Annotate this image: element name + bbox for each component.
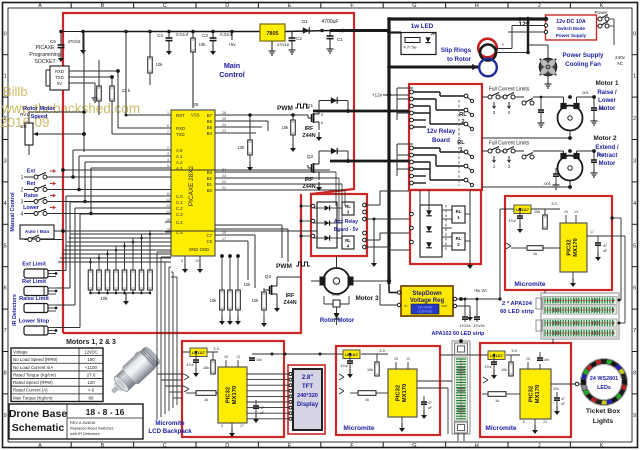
wire motor2 feed	[533, 150, 564, 152]
svg-text:C: C	[163, 3, 167, 9]
svg-text:uF: uF	[561, 402, 565, 406]
svg-text:Max Torque (Kg/cm): Max Torque (Kg/cm)	[13, 395, 53, 400]
svg-text:47: 47	[603, 244, 607, 248]
svg-text:470/16: 470/16	[68, 39, 81, 44]
wire +5 rail to micromite right	[499, 209, 501, 299]
svg-text:470/16: 470/16	[277, 42, 290, 47]
svg-text:5: 5	[4, 243, 7, 249]
svg-text:28: 28	[194, 102, 199, 107]
svg-text:28: 28	[526, 357, 530, 361]
svg-text:> 6: > 6	[88, 388, 95, 393]
svg-text:.001: .001	[581, 90, 590, 95]
svg-text:19: 19	[222, 231, 226, 235]
svg-text:5: 5	[633, 243, 636, 249]
svg-text:10k: 10k	[282, 125, 290, 130]
wire B7 to Q1 gate	[215, 114, 308, 116]
svg-text:20n: 20n	[553, 387, 559, 391]
red outline power supply	[546, 15, 597, 40]
svg-text:1: 1	[633, 74, 636, 80]
svg-text:+: +	[502, 42, 505, 47]
svg-text:22: 22	[543, 420, 547, 424]
svg-text:to Rotor: to Rotor	[447, 56, 472, 63]
svg-text:Rated Speed (RPM): Rated Speed (RPM)	[13, 380, 53, 385]
svg-text:Power Supply: Power Supply	[556, 33, 587, 38]
svg-text:22 k: 22 k	[122, 88, 131, 93]
svg-text:in: in	[405, 304, 408, 308]
svg-text:6: 6	[633, 286, 636, 292]
input forks micromite right	[506, 243, 511, 249]
svg-text:J: J	[538, 443, 541, 449]
svg-text:2: 2	[508, 164, 511, 169]
svg-text:B0: B0	[207, 188, 213, 193]
slip ring black	[480, 45, 496, 61]
svg-text:.001: .001	[543, 181, 552, 186]
svg-text:3.3: 3.3	[379, 348, 385, 353]
wire across lower area	[62, 332, 64, 334]
capacitor motor1 .001	[591, 107, 597, 109]
svg-text:Voltage: Voltage	[13, 350, 28, 355]
svg-text:PWM: PWM	[277, 105, 293, 112]
wire 7805 output rail	[285, 31, 330, 32]
regulator LM1117 bottom-right	[488, 351, 505, 360]
svg-text:4: 4	[4, 201, 7, 207]
wire thick into 1w LED box	[389, 31, 401, 33]
svg-text:TXD: TXD	[176, 132, 185, 137]
red outline aux relay board 5v	[311, 194, 367, 256]
slip ring red	[478, 39, 497, 58]
input forks bc	[339, 374, 344, 380]
svg-text:K: K	[600, 3, 604, 9]
svg-text:10k: 10k	[534, 210, 540, 214]
svg-text:K: K	[600, 443, 604, 449]
wire mesh sensors to picaxe	[55, 270, 57, 272]
svg-text:Ext: Ext	[27, 169, 36, 175]
svg-text:27: 27	[240, 424, 244, 428]
svg-text:8: 8	[4, 371, 7, 377]
svg-text:10k: 10k	[501, 368, 507, 372]
capacitor 47uf bc	[347, 360, 353, 362]
svg-text:1: 1	[493, 164, 496, 169]
relay RL4	[342, 236, 354, 249]
ground under rail drop	[82, 45, 84, 50]
svg-text:A: A	[38, 3, 42, 9]
wire aux left feed stubs	[301, 205, 311, 207]
resistor 10k micromite right	[543, 215, 548, 229]
svg-text:B6: B6	[207, 119, 213, 124]
svg-text:47uf: 47uf	[187, 363, 194, 367]
svg-text:2.8": 2.8"	[302, 375, 313, 381]
svg-text:100: 100	[87, 357, 95, 362]
capacitor motor2 .001	[591, 159, 597, 161]
svg-text:PICAXE 28X2: PICAXE 28X2	[188, 165, 195, 206]
capacitor 47uf micromite right	[517, 215, 523, 217]
svg-text:Lower: Lower	[598, 98, 616, 104]
wire micromite right internals	[505, 208, 514, 210]
svg-text:1k: 1k	[495, 399, 499, 403]
svg-text:470/16: 470/16	[474, 324, 485, 328]
slip ring blue	[479, 59, 497, 77]
svg-text:MX170: MX170	[232, 386, 238, 404]
diode flyback Q1	[331, 97, 337, 103]
svg-text:0.01uf: 0.01uf	[220, 32, 232, 37]
svg-text:C5: C5	[50, 39, 56, 44]
relay contacts RL2 right	[464, 94, 468, 98]
svg-text:RST: RST	[176, 113, 185, 118]
LED strip APA104 assembly	[541, 293, 619, 339]
capacitor 10n br	[537, 357, 543, 359]
svg-text:B3: B3	[207, 170, 213, 175]
wire relay contact loops upper	[396, 88, 398, 120]
resistor R13 10k below chip	[220, 290, 225, 310]
junction dots	[387, 31, 391, 35]
svg-text:11: 11	[166, 192, 170, 196]
svg-text:0: 0	[4, 31, 7, 37]
LED strip APA102 bottom connector	[455, 422, 468, 433]
node +5v stub	[231, 32, 233, 41]
svg-text:Auto / Man: Auto / Man	[25, 229, 50, 235]
ground resistor bank	[125, 293, 127, 296]
red outline aux diode board	[410, 190, 481, 264]
svg-text:Schematic: Schematic	[12, 422, 65, 434]
resistor bank R1-R8 10k pullups	[88, 270, 93, 290]
red outline micromite LCD backpack	[182, 341, 284, 437]
wire thick rail to C1 bus	[330, 29, 390, 32]
regulator LM1117 right	[514, 205, 531, 214]
ground PICAXE pin19	[199, 256, 201, 264]
svg-text:D: D	[225, 3, 229, 9]
capacitor motor1 lower	[538, 109, 544, 111]
svg-text:10k: 10k	[100, 296, 108, 301]
svg-text:23: 23	[222, 129, 226, 133]
svg-text:Rated Current (A): Rated Current (A)	[13, 388, 48, 393]
svg-text:PICAXE: PICAXE	[35, 45, 55, 51]
svg-text:A: A	[38, 443, 42, 449]
svg-text:1k: 1k	[204, 398, 208, 402]
diode array aux board 2	[420, 205, 442, 257]
capacitor 47uf backpack	[193, 359, 199, 361]
wire +12v feed to relay	[383, 94, 409, 96]
wire motor2 return	[569, 181, 571, 188]
svg-text:9: 9	[4, 413, 7, 419]
diode flyback Q2	[331, 148, 337, 154]
svg-text:47uf: 47uf	[341, 364, 348, 368]
wire aux ground drop	[373, 219, 375, 258]
capacitor C2	[289, 37, 296, 39]
svg-text:PIC32: PIC32	[226, 387, 232, 403]
svg-text:120: 120	[87, 380, 95, 385]
LED diode	[425, 37, 430, 42]
svg-text:8: 8	[523, 420, 525, 424]
wire relay internal wiring lower	[413, 147, 440, 149]
svg-text:3: 3	[633, 159, 636, 165]
resistor 10k pullup	[191, 38, 196, 52]
svg-text:RXD: RXD	[55, 69, 64, 74]
svg-text:C6: C6	[207, 239, 213, 244]
wire resistor bank bottom rail	[91, 292, 151, 294]
wire gate feeds Q1 Q2	[300, 114, 308, 116]
wire motor3 top to aux board	[336, 256, 338, 268]
wire 12v thick bus vertical	[387, 19, 390, 284]
svg-text:RL: RL	[456, 209, 462, 214]
resistor 4.7r 5w	[405, 38, 420, 43]
regulator U2 7805	[260, 24, 285, 41]
svg-text:Speed: Speed	[31, 114, 48, 120]
svg-text:12v: 12v	[518, 21, 530, 28]
wire auto-man to bus	[63, 230, 340, 232]
svg-text:12v Relay: 12v Relay	[427, 128, 456, 135]
wire thick slip-ring feed	[389, 66, 478, 69]
svg-text:13: 13	[236, 355, 240, 359]
svg-text:8: 8	[181, 259, 183, 263]
svg-text:TXD: TXD	[55, 75, 64, 80]
svg-text:Billb: Billb	[3, 84, 28, 99]
ground socket	[94, 95, 96, 98]
svg-text:AC: AC	[617, 61, 624, 66]
svg-text:Control: Control	[219, 70, 245, 79]
wire strips right loop	[619, 299, 621, 301]
svg-text:Main: Main	[224, 61, 240, 70]
svg-text:RL: RL	[456, 236, 462, 241]
svg-text:MX170: MX170	[535, 385, 541, 403]
wire rail bc to bottom-right	[440, 354, 480, 356]
svg-text:+5v: +5v	[228, 42, 236, 47]
svg-text:Motor 1: Motor 1	[595, 80, 619, 87]
svg-text:with IR Detectors: with IR Detectors	[70, 431, 100, 436]
svg-text:StepDown: StepDown	[412, 291, 442, 297]
regulator LM1117 bottom-center	[343, 350, 360, 359]
svg-text:H: H	[475, 3, 479, 9]
spec table	[11, 348, 103, 402]
input forks backpack	[184, 374, 189, 380]
svg-text:MX170: MX170	[573, 238, 579, 256]
LED strip connectors left	[536, 298, 542, 309]
relay contacts upper group RL2	[410, 90, 414, 94]
svg-text:1k: 1k	[365, 398, 369, 402]
ground chip right box	[572, 272, 574, 278]
svg-text:1w LED: 1w LED	[411, 23, 434, 30]
ground br chip	[534, 419, 536, 425]
LED strip APA102 vertical	[452, 341, 470, 434]
svg-text:17: 17	[590, 230, 594, 234]
svg-text:G: G	[412, 443, 416, 449]
red outline micromite bottom-center	[336, 346, 440, 435]
capacitor C3	[210, 37, 217, 39]
svg-text:10k: 10k	[203, 366, 209, 370]
svg-text:7: 7	[633, 328, 636, 334]
ground bc chip	[401, 417, 403, 423]
svg-text:H: H	[475, 443, 479, 449]
svg-text:3.3: 3.3	[213, 346, 219, 351]
svg-text:S: S	[321, 113, 324, 117]
svg-text:REV A 26/8/16: REV A 26/8/16	[70, 420, 95, 425]
svg-text:3: 3	[493, 110, 496, 115]
resistor R16 10k	[248, 140, 253, 155]
svg-text:47: 47	[428, 401, 432, 405]
svg-text:12v DC 10A: 12v DC 10A	[556, 19, 586, 25]
resistor 1k micromite right	[527, 246, 543, 251]
svg-text:B1: B1	[207, 182, 213, 187]
svg-text:13: 13	[406, 357, 410, 361]
svg-text:23: 23	[222, 174, 226, 178]
svg-text:C.3: C.3	[176, 212, 183, 217]
svg-text:J: J	[538, 3, 541, 9]
wire socket TXD	[69, 76, 112, 78]
red outline TFT display	[288, 365, 325, 434]
capacitor motor2 lower	[553, 173, 559, 175]
svg-text:10k: 10k	[210, 298, 218, 303]
svg-text:Lights: Lights	[593, 418, 614, 425]
svg-text:PIC32: PIC32	[567, 239, 573, 255]
svg-text:13: 13	[166, 204, 170, 208]
wire relay to aux2 links	[419, 190, 421, 205]
svg-text:Drone Base: Drone Base	[9, 408, 68, 420]
wire micromite right outputs to strips	[612, 217, 621, 219]
svg-text:RXD: RXD	[176, 126, 185, 131]
wire stepdown in	[388, 284, 390, 293]
capacitor C5	[58, 44, 65, 46]
svg-text:LM1117: LM1117	[345, 353, 358, 357]
capacitor 47uf br	[491, 361, 497, 363]
resistor 1k br	[488, 392, 506, 397]
node top +V rail	[83, 31, 260, 33]
svg-text:8: 8	[633, 371, 636, 377]
wire aux2 internals	[442, 209, 452, 211]
aux board input contacts left	[311, 204, 315, 208]
ground backpack chip	[231, 423, 233, 428]
svg-text:RL: RL	[459, 112, 467, 118]
svg-text:47uf: 47uf	[485, 365, 492, 369]
wire picaxe area to bottom-center box	[310, 337, 336, 339]
connector programming socket	[50, 66, 69, 90]
svg-text:1: 1	[167, 111, 169, 115]
svg-text:Aux Relay: Aux Relay	[334, 219, 358, 225]
svg-text:Ret: Ret	[27, 181, 36, 187]
svg-text:Voltage Reg: Voltage Reg	[410, 298, 445, 304]
wire left bus vertical x84	[83, 32, 85, 153]
svg-text:60 LED strip: 60 LED strip	[500, 309, 534, 315]
wire bc internals	[336, 353, 343, 355]
wire rail backpack to bottom-center	[252, 353, 343, 355]
svg-text:C.0: C.0	[176, 194, 183, 199]
svg-text:Power Supply: Power Supply	[563, 52, 604, 59]
motor photograph	[104, 344, 163, 401]
ground aux2	[469, 258, 471, 260]
svg-text:B4: B4	[207, 131, 213, 136]
svg-text:10k: 10k	[252, 298, 260, 303]
svg-text:IRF: IRF	[305, 126, 314, 132]
svg-text:Full Current Limits: Full Current Limits	[489, 87, 530, 93]
svg-text:C2: C2	[296, 36, 302, 41]
svg-text:Switch Mode: Switch Mode	[557, 26, 586, 31]
aux relay contacts right edge	[363, 203, 367, 207]
svg-text:PIC32: PIC32	[529, 386, 535, 402]
svg-text:LED/Volts: LED/Volts	[418, 310, 433, 314]
relay RL2 aux2	[452, 233, 465, 250]
svg-text:13: 13	[574, 210, 578, 214]
capacitor br right	[554, 397, 560, 399]
wire b-port verticals	[335, 172, 337, 206]
wire chip out pin17	[587, 235, 612, 237]
svg-text:RL: RL	[345, 204, 351, 209]
svg-text:Retract: Retract	[597, 153, 618, 159]
wire stepdown out	[457, 298, 500, 300]
svg-text:25: 25	[222, 117, 226, 121]
wire motor1 return	[569, 131, 571, 139]
svg-text:4700uF: 4700uF	[322, 19, 339, 25]
svg-text:C7: C7	[207, 233, 213, 238]
motor M2	[558, 156, 583, 181]
svg-text:28: 28	[564, 210, 568, 214]
svg-text:D1: D1	[302, 19, 308, 24]
relay RL3	[342, 202, 354, 215]
svg-text:10k: 10k	[199, 42, 207, 47]
wire bc chip to APA102	[417, 380, 452, 382]
svg-text:Micromite: Micromite	[514, 281, 545, 288]
wire +12v entry	[384, 98, 409, 100]
svg-text:17: 17	[222, 237, 226, 241]
wire br chip top pins	[527, 362, 529, 369]
svg-text:6: 6	[4, 286, 7, 292]
svg-text:+5v 2A: +5v 2A	[473, 288, 487, 293]
wire bundle tops to picaxe area	[157, 251, 171, 253]
wire bus switches to relay area	[100, 176, 171, 178]
svg-text:APA102 60 LED strip: APA102 60 LED strip	[432, 331, 486, 337]
svg-text:B: B	[101, 443, 105, 449]
svg-text:2: 2	[633, 116, 636, 122]
red outline micromite bottom-right	[480, 343, 571, 437]
wire br chip out to ring	[551, 383, 575, 385]
svg-text:Board: Board	[432, 137, 450, 144]
svg-text:Q3: Q3	[265, 274, 272, 280]
wire B3-B0 to relay drivers	[215, 171, 336, 173]
svg-text:PIC32: PIC32	[396, 385, 402, 401]
svg-text:Slip Rings: Slip Rings	[441, 47, 472, 54]
svg-text:B2: B2	[207, 176, 213, 181]
wire to LED ring	[579, 383, 583, 385]
wire backpack internals	[182, 351, 190, 353]
svg-text:A.2: A.2	[176, 160, 183, 165]
wire backpack chip top pins	[225, 360, 227, 367]
svg-text:1: 1	[21, 175, 24, 181]
wire B6 B5 B4 fanout	[215, 120, 268, 122]
svg-text:Programming: Programming	[29, 52, 60, 58]
svg-text:24 WS2801: 24 WS2801	[590, 376, 618, 382]
wire bottom feeders into backpack	[157, 373, 184, 375]
svg-text:Lower Stop: Lower Stop	[19, 319, 50, 325]
capacitor 10n backpack	[249, 357, 255, 359]
resistor R10 22k	[110, 86, 115, 101]
svg-text:4: 4	[21, 212, 24, 218]
switch box auto-man	[20, 225, 54, 239]
resistor 10k bc	[375, 362, 379, 376]
wire 12v thick bus top rail	[389, 17, 546, 20]
IC PIC32MX170 LCD backpack	[218, 367, 247, 423]
svg-text:0V: 0V	[57, 81, 62, 86]
svg-text:3.3: 3.3	[551, 201, 557, 206]
svg-text:Raise /: Raise /	[597, 90, 617, 96]
svg-text:Raise: Raise	[24, 193, 38, 199]
stepdown voltage regulator module	[401, 286, 453, 316]
svg-text:G: G	[412, 3, 416, 9]
resistor R17 10k	[291, 120, 296, 135]
motor M3 rotor	[324, 268, 350, 294]
red outline main control board	[63, 13, 354, 333]
svg-text:9: 9	[633, 413, 636, 419]
svg-text:Display: Display	[297, 402, 319, 408]
wire socket 0V	[69, 82, 95, 84]
svg-text:C.2: C.2	[176, 206, 183, 211]
svg-text:Q1: Q1	[307, 103, 314, 109]
